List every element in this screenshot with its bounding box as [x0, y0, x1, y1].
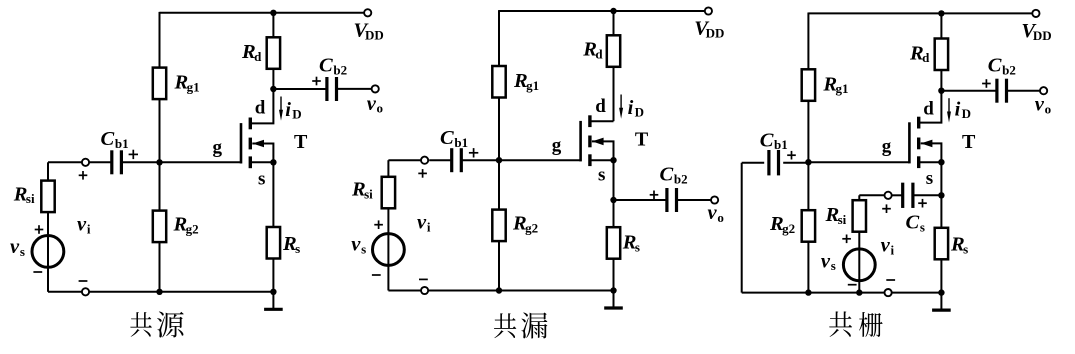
polarity + of vi: [418, 169, 427, 178]
svg-text:g2: g2: [782, 221, 795, 236]
node source junction: [270, 159, 276, 165]
wire left column to Rsi: [47, 162, 49, 180]
junction bottom rail / Rs: [610, 287, 616, 293]
resistor Rg1: [802, 69, 815, 101]
junction bottom rail / Rg2: [156, 289, 162, 295]
label v_s: [10, 236, 25, 259]
resistor Rsi: [382, 177, 395, 209]
junction bottom rail / Rg2: [496, 287, 502, 293]
wire vi terminal to Rsi corner: [859, 194, 884, 196]
svg-text:i: i: [890, 242, 894, 257]
transistor T channel dashes: [588, 115, 591, 166]
svg-text:b2: b2: [333, 62, 347, 77]
transistor T source lead: [920, 161, 942, 163]
wire vi to Cb1: [429, 159, 451, 161]
wire Cs node to Cs: [913, 194, 942, 196]
wire Rg1 bottom to gate node: [807, 101, 809, 162]
terminal vi input: [82, 159, 89, 166]
resistor Rg1: [153, 68, 166, 100]
label v_i: [417, 212, 431, 235]
wire Cb2 to vo: [337, 88, 372, 90]
label v_o: [1035, 94, 1051, 117]
wire Cb1 to gate column: [783, 162, 808, 164]
transistor T drain lead: [251, 89, 273, 123]
wire output node to Rs: [613, 200, 615, 227]
polarity + of Cb1: [787, 151, 796, 160]
capacitor Cb1: [112, 150, 122, 174]
wire Rg2 bottom: [807, 242, 809, 293]
wire Rs bottom: [940, 259, 942, 292]
svg-text:s: s: [295, 241, 300, 256]
resistor Rs: [607, 227, 620, 259]
polarity + of vs: [842, 235, 851, 244]
svg-text:b1: b1: [454, 135, 468, 150]
polarity + of Cb1: [129, 150, 138, 159]
node drain output: [938, 88, 944, 94]
svg-text:o: o: [1045, 102, 1052, 117]
svg-text:b1: b1: [115, 136, 129, 151]
node source junction: [938, 159, 944, 165]
polarity + of Cb2: [312, 77, 321, 86]
wire Rg2 bottom: [159, 242, 161, 292]
caption 栅 (gate): [859, 312, 883, 337]
transistor T drain lead: [920, 91, 942, 123]
wire Rg2 bottom: [498, 241, 500, 290]
svg-text:v: v: [77, 214, 87, 236]
label R_d: [909, 42, 930, 65]
wire Rd to drain: [613, 67, 615, 121]
capacitor Cb1: [769, 150, 779, 175]
polarity + of vs: [374, 220, 383, 229]
svg-text:g1: g1: [187, 79, 200, 94]
wire Cb1 row left: [742, 162, 765, 164]
wire input row left: [48, 161, 82, 163]
transistor T body lead: [252, 144, 273, 163]
wire Rsi to vs: [858, 232, 860, 293]
svg-text:v: v: [1035, 94, 1045, 116]
svg-text:D: D: [962, 106, 971, 121]
caption 共 (common): [829, 311, 852, 337]
wire Cb2 to vo: [677, 199, 711, 201]
terminal VDD: [705, 7, 712, 14]
wire Rs bottom: [272, 259, 274, 292]
node source junction: [610, 157, 616, 163]
wire Rg1 top: [498, 10, 500, 66]
transistor T channel dashes: [249, 118, 252, 169]
svg-text:v: v: [351, 234, 361, 256]
terminal vi return: [82, 288, 89, 295]
ground: [932, 293, 951, 311]
label R_s: [950, 234, 968, 257]
wire Rsi to vs: [47, 212, 49, 292]
label R_d: [582, 39, 603, 62]
label i_D: [285, 99, 301, 122]
ground: [264, 292, 283, 310]
wire input row left: [388, 159, 422, 161]
wire Rg1 bottom to gate node: [498, 98, 500, 161]
label R_si: [351, 179, 373, 202]
svg-text:s: s: [635, 239, 640, 254]
polarity + of Cb1: [469, 148, 478, 157]
svg-text:d: d: [595, 96, 606, 117]
label C_b2: [319, 55, 347, 78]
node Cs junction: [938, 192, 944, 198]
resistor Rsi: [853, 200, 866, 232]
label R_g2: [173, 214, 199, 237]
terminal vi input: [421, 157, 428, 164]
transistor T body lead: [592, 141, 614, 160]
svg-text:b1: b1: [774, 137, 788, 152]
terminal vo: [711, 196, 718, 203]
svg-text:s: s: [361, 241, 366, 256]
transistor T gate bar: [908, 122, 911, 163]
resistor Rsi: [41, 181, 54, 213]
label V_DD: [694, 18, 724, 41]
current arrow i_D of T: [947, 98, 951, 122]
svg-text:C: C: [906, 212, 920, 234]
label R_g1: [513, 70, 539, 93]
svg-text:d: d: [595, 47, 603, 62]
transistor T channel dashes: [917, 117, 920, 168]
label v_s: [821, 250, 836, 273]
wire source node to Cb2: [614, 199, 667, 201]
node gate junction: [805, 159, 811, 165]
svg-text:i: i: [955, 98, 961, 120]
svg-text:si: si: [364, 187, 373, 202]
label C_b2: [988, 55, 1016, 78]
svg-text:s: s: [20, 244, 25, 259]
svg-text:o: o: [377, 101, 384, 116]
polarity + of Cb2: [982, 79, 991, 88]
label C_b1: [101, 128, 129, 151]
polarity + of Cb2: [650, 191, 659, 200]
source vs: [843, 249, 875, 281]
svg-text:v: v: [708, 202, 718, 224]
svg-text:si: si: [838, 212, 847, 227]
svg-text:s: s: [258, 169, 265, 190]
svg-text:d: d: [922, 50, 930, 65]
resistor Rg1: [492, 66, 505, 98]
label C_b2: [660, 164, 688, 187]
svg-text:T: T: [962, 131, 976, 153]
wire Rd top: [940, 13, 942, 38]
terminal vi input: [885, 192, 892, 199]
svg-text:g2: g2: [525, 220, 538, 235]
caption 共 (common): [494, 313, 516, 338]
label C_s: [906, 212, 925, 235]
junction top rail / Rd: [270, 10, 276, 16]
junction bottom rail / vs: [856, 289, 862, 295]
resistor Rs: [935, 228, 948, 259]
wire source down to Cs node: [940, 162, 942, 195]
svg-text:v: v: [10, 236, 20, 258]
wire left column down: [741, 163, 743, 293]
wire gate: [160, 161, 242, 163]
transistor T body arrow: [253, 140, 265, 148]
ground: [604, 291, 623, 309]
terminal vo: [1040, 87, 1047, 94]
svg-text:si: si: [26, 191, 35, 206]
resistor Rd: [607, 35, 620, 67]
polarity - of vi: [886, 279, 895, 281]
label v_i: [881, 235, 895, 258]
svg-text:o: o: [717, 210, 724, 225]
wire Rd bottom to drain node: [940, 70, 942, 91]
svg-text:C: C: [319, 55, 333, 77]
wire top rail: [499, 10, 705, 12]
wire gate node to Rg2: [498, 160, 500, 209]
label V_DD: [354, 20, 384, 43]
label R_s: [282, 233, 300, 256]
junction bottom rail / Rs: [270, 289, 276, 295]
label v_s: [351, 234, 366, 257]
svg-text:C: C: [988, 55, 1002, 77]
svg-text:v: v: [417, 212, 427, 234]
wire top rail: [808, 12, 1032, 14]
label R_g1: [822, 73, 848, 96]
wire drain node to Cb2: [273, 88, 326, 90]
label C_b1: [760, 129, 788, 152]
node gate bias junction: [496, 157, 502, 163]
svg-text:g1: g1: [526, 78, 539, 93]
svg-text:i: i: [87, 221, 91, 236]
current arrow i_D of T: [279, 97, 283, 121]
wire Rd bottom to drain node: [272, 69, 274, 89]
capacitor Cb1: [452, 148, 462, 172]
svg-text:s: s: [920, 219, 925, 234]
label R_s: [622, 232, 640, 255]
transistor T gate bar: [579, 121, 582, 161]
wire vi to Cb1: [89, 161, 112, 163]
polarity + of vi: [79, 171, 88, 180]
node gate bias junction: [156, 159, 162, 165]
wire left column to Rsi: [387, 160, 389, 178]
polarity - of vi: [79, 280, 88, 282]
label C_b1: [440, 127, 468, 150]
wire Cb1 to gate node: [462, 159, 500, 161]
svg-text:DD: DD: [706, 25, 725, 40]
label R_si: [13, 183, 35, 206]
wire Cb2 to vo: [1007, 90, 1040, 92]
label i_D: [955, 98, 971, 121]
resistor Rg2: [492, 210, 505, 242]
svg-text:d: d: [923, 99, 934, 120]
svg-text:d: d: [255, 97, 266, 118]
svg-text:s: s: [831, 258, 836, 273]
label i_D: [628, 97, 644, 120]
wire Rg1 bottom to gate node: [159, 99, 161, 162]
svg-text:C: C: [760, 129, 774, 151]
svg-text:D: D: [635, 105, 644, 120]
transistor T source lead: [591, 159, 614, 161]
terminal vi return: [885, 289, 892, 296]
capacitor Cs: [903, 183, 913, 208]
wire Rsi to vs: [387, 208, 389, 290]
wire Cs to vi terminal: [892, 194, 903, 196]
svg-text:v: v: [821, 250, 831, 272]
capacitor Cb2: [997, 79, 1007, 103]
polarity + of vi: [882, 204, 891, 213]
wire source to Rs: [272, 162, 274, 227]
svg-text:DD: DD: [1033, 28, 1052, 43]
resistor Rd: [267, 37, 280, 69]
caption 源 (source): [157, 311, 184, 337]
terminal vi return: [421, 287, 428, 294]
capacitor Cb2: [667, 188, 677, 212]
svg-text:D: D: [292, 107, 301, 122]
source vs: [373, 234, 405, 266]
resistor Rd: [935, 39, 948, 71]
transistor T body lead: [921, 143, 942, 162]
junction bottom rail / Rg2: [805, 289, 811, 295]
source vs: [32, 236, 64, 268]
svg-text:T: T: [635, 129, 649, 151]
capacitor Cb2: [327, 77, 337, 101]
junction bottom rail / Rs: [938, 289, 944, 295]
svg-text:C: C: [101, 128, 115, 150]
svg-text:b2: b2: [1002, 63, 1016, 78]
transistor T source lead: [251, 161, 273, 163]
wire bottom rail: [388, 290, 613, 292]
svg-text:d: d: [254, 49, 262, 64]
svg-text:g: g: [213, 137, 223, 158]
svg-text:v: v: [881, 235, 891, 257]
terminal VDD: [1032, 10, 1039, 17]
transistor T gate bar: [240, 123, 243, 163]
wire drain node to Cb2: [941, 90, 996, 92]
label v_o: [708, 202, 724, 225]
svg-text:i: i: [285, 99, 291, 121]
junction top rail / Rd: [938, 10, 944, 16]
junction top rail / Rd: [610, 8, 616, 14]
svg-text:s: s: [963, 241, 968, 256]
wire Cs node to Rs: [940, 195, 942, 228]
svg-text:i: i: [427, 219, 431, 234]
label R_si: [825, 204, 847, 227]
polarity - of vs: [372, 274, 381, 276]
resistor Rs: [267, 227, 280, 259]
svg-text:s: s: [598, 165, 605, 186]
wire corner down to Rsi: [858, 195, 860, 200]
transistor T body arrow: [921, 140, 933, 148]
caption 共 (common): [130, 312, 152, 337]
svg-text:b2: b2: [674, 171, 688, 186]
svg-text:T: T: [294, 131, 308, 153]
svg-text:i: i: [628, 97, 634, 119]
polarity - of vs: [848, 284, 857, 286]
wire gate node to Rg2: [159, 162, 161, 210]
wire Rs bottom: [613, 259, 615, 291]
wire gate node to Rg2: [807, 162, 809, 210]
svg-text:g: g: [552, 135, 562, 156]
wire bottom rail: [48, 291, 273, 293]
node drain output: [270, 86, 276, 92]
transistor T drain lead: [591, 120, 614, 122]
svg-text:s: s: [926, 168, 933, 189]
terminal vo: [372, 85, 379, 92]
svg-text:DD: DD: [365, 27, 384, 42]
polarity + of Cs: [918, 199, 927, 208]
wire gate to bias node: [808, 161, 909, 163]
label v_i: [77, 214, 91, 237]
label V_DD: [1021, 20, 1051, 43]
wire top rail: [160, 12, 365, 14]
label R_g2: [512, 213, 538, 236]
wire bottom rail: [742, 292, 942, 294]
terminal VDD: [364, 9, 371, 16]
polarity + of vs: [35, 225, 44, 234]
wire gate: [499, 159, 581, 161]
label v_o: [367, 93, 383, 116]
svg-text:g1: g1: [835, 81, 848, 96]
label R_g1: [174, 72, 200, 95]
svg-text:C: C: [660, 164, 674, 186]
wire Cb1 to gate node: [122, 161, 160, 163]
wire Rd top: [613, 11, 615, 35]
svg-text:C: C: [440, 127, 454, 149]
resistor Rg2: [153, 211, 166, 243]
label R_g2: [769, 213, 795, 236]
wire source to output node: [613, 160, 615, 200]
wire Rd top: [272, 13, 274, 38]
transistor T body arrow: [592, 138, 604, 146]
caption 漏 (drain): [521, 313, 547, 339]
current arrow i_D of T: [619, 95, 623, 119]
svg-text:g: g: [882, 136, 892, 157]
polarity - of vs: [33, 271, 42, 273]
resistor Rg2: [802, 210, 815, 242]
polarity - of vi: [419, 278, 428, 280]
svg-text:g2: g2: [186, 221, 199, 236]
wire Rg1 top: [159, 12, 161, 68]
svg-text:v: v: [367, 93, 377, 115]
node source output: [610, 197, 616, 203]
wire Rg1 top: [807, 13, 809, 70]
label R_d: [241, 41, 262, 64]
